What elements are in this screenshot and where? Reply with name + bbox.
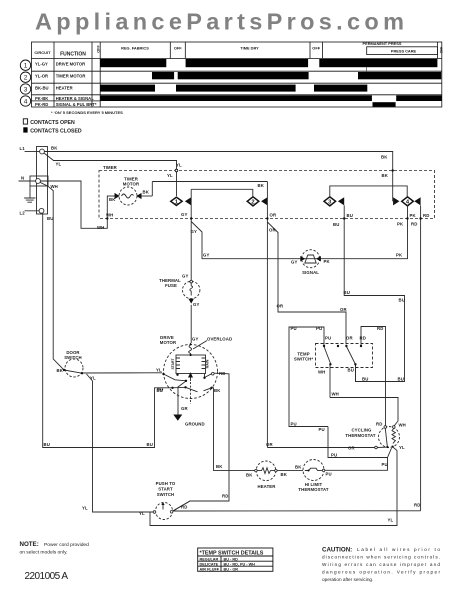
wire WH from N xyxy=(40,181,107,228)
svg-text:L1: L1 xyxy=(20,146,26,151)
circled row numbers xyxy=(20,60,30,106)
svg-text:REGULAR: REGULAR xyxy=(200,557,219,561)
contacts closed symbol xyxy=(23,127,27,132)
svg-text:3: 3 xyxy=(24,86,28,93)
wire GY branch to signal xyxy=(191,222,316,259)
wire YL down to cam1 xyxy=(176,161,178,196)
svg-text:PU: PU xyxy=(382,462,388,467)
svg-text:YL-GY: YL-GY xyxy=(35,61,48,66)
svg-text:BK: BK xyxy=(51,146,58,151)
column: function divider xyxy=(91,42,93,107)
temp switch contact dots xyxy=(323,345,362,366)
column: reg fabrics right xyxy=(169,42,171,59)
svg-text:GROUND: GROUND xyxy=(185,422,205,427)
svg-text:4: 4 xyxy=(24,98,28,105)
timing bars row4b signal&pul brt xyxy=(373,102,396,107)
motor contact dots xyxy=(162,373,212,389)
svg-text:THERMOSTAT: THERMOSTAT xyxy=(345,433,375,438)
wire YL horizontal to timer xyxy=(54,160,177,162)
svg-text:BK: BK xyxy=(143,190,150,195)
svg-text:FUSE: FUSE xyxy=(165,283,177,288)
svg-text:PK: PK xyxy=(396,253,403,258)
svg-text:PU: PU xyxy=(316,326,322,331)
svg-text:BK: BK xyxy=(216,464,223,469)
svg-text:OR: OR xyxy=(270,213,277,218)
OR input xyxy=(267,447,374,449)
svg-text:RD: RD xyxy=(423,213,429,218)
svg-text:YL: YL xyxy=(156,368,162,373)
svg-text:PU: PU xyxy=(325,336,331,341)
svg-text:PU: PU xyxy=(319,427,325,432)
winding box xyxy=(176,355,206,374)
svg-text:DRIVE MOTOR: DRIVE MOTOR xyxy=(56,61,85,66)
main-RD blade xyxy=(205,374,212,378)
svg-text:BU - RD, PU - WH: BU - RD, PU - WH xyxy=(224,562,256,566)
winding hatches right xyxy=(202,358,206,369)
L1 lead wire xyxy=(25,151,40,153)
resistor zigzag xyxy=(392,428,395,443)
svg-text:2: 2 xyxy=(251,200,254,206)
svg-text:CIRCUIT: CIRCUIT xyxy=(34,50,51,55)
svg-text:OR: OR xyxy=(348,446,355,451)
wire OR branch to temp switch xyxy=(267,222,346,344)
ground symbol motor xyxy=(173,415,182,421)
centrifugal mech dashed link xyxy=(190,382,192,404)
svg-text:PK: PK xyxy=(397,222,404,227)
svg-text:BU - RD: BU - RD xyxy=(224,557,239,561)
svg-text:BU: BU xyxy=(347,213,353,218)
PU lead path xyxy=(289,327,328,427)
wire PK from cam4 to signal xyxy=(316,205,408,258)
svg-text:TIMER MOTOR: TIMER MOTOR xyxy=(56,74,86,79)
column: off2 right xyxy=(184,42,186,59)
press care divider artifact into rows xyxy=(366,59,368,78)
RD lead from temp switch xyxy=(361,327,386,426)
svg-text:BK: BK xyxy=(109,197,116,202)
wire BU from L2 down and to motor xyxy=(43,214,173,448)
timer motor xyxy=(107,182,267,206)
svg-text:GR: GR xyxy=(181,406,188,411)
svg-text:TIMER: TIMER xyxy=(103,165,118,170)
svg-text:YL: YL xyxy=(388,518,394,523)
svg-text:GY: GY xyxy=(191,229,197,234)
svg-text:YL: YL xyxy=(399,445,405,450)
svg-text:dangerous operation. Verify pr: dangerous operation. Verify proper xyxy=(322,570,440,575)
svg-text:BU: BU xyxy=(344,290,350,295)
svg-text:YL: YL xyxy=(139,511,145,516)
BU lower contact line xyxy=(173,386,186,389)
svg-text:CONTACTS CLOSED: CONTACTS CLOSED xyxy=(30,128,82,134)
timing bars row1 drive motor xyxy=(100,59,441,107)
cam switch 1 xyxy=(171,197,192,205)
timer motor lead arrows xyxy=(115,193,120,199)
header texts xyxy=(34,41,443,58)
BK out wire xyxy=(212,388,256,471)
svg-text:SWITCH: SWITCH xyxy=(64,355,82,360)
YL input wire xyxy=(150,372,162,374)
ground at N terminal xyxy=(25,186,35,202)
wire BK from L1 to cam4 xyxy=(44,151,392,153)
svg-text:MAIN: MAIN xyxy=(205,359,209,368)
svg-text:PUSH TO: PUSH TO xyxy=(156,481,176,486)
svg-text:BK: BK xyxy=(57,368,64,373)
svg-text:BK: BK xyxy=(258,183,265,188)
svg-text:GY: GY xyxy=(291,260,297,265)
svg-text:BU: BU xyxy=(147,442,153,447)
svg-text:GY: GY xyxy=(193,302,199,307)
wire bracket cam3-cam4 xyxy=(330,186,407,197)
svg-text:BU: BU xyxy=(333,222,339,227)
svg-text:YL-OR: YL-OR xyxy=(35,74,48,79)
svg-text:FUNCTION: FUNCTION xyxy=(60,52,86,58)
RD wire to cam4 xyxy=(172,510,421,512)
svg-text:PU: PU xyxy=(291,326,297,331)
svg-text:RD: RD xyxy=(414,503,420,508)
svg-text:WH: WH xyxy=(106,213,113,218)
wire BU from cam3 to temp switch xyxy=(344,205,404,381)
winding hatches left xyxy=(176,358,180,369)
svg-text:Wiring errors can cause improp: Wiring errors can cause improper and xyxy=(322,562,440,567)
svg-text:RD: RD xyxy=(219,371,225,376)
svg-text:operation after servicing.: operation after servicing. xyxy=(322,577,373,582)
svg-text:YL: YL xyxy=(90,376,96,381)
svg-text:1: 1 xyxy=(24,63,28,70)
svg-text:OR: OR xyxy=(269,228,276,233)
svg-text:BK: BK xyxy=(246,473,253,478)
terminal block rectangle xyxy=(37,147,48,215)
svg-text:L2: L2 xyxy=(20,211,26,216)
wire BK down to door switch xyxy=(41,183,65,371)
wire BK down to cam4 xyxy=(392,152,394,202)
svg-text:DELICATE: DELICATE xyxy=(200,562,219,566)
wire GY net cam1 to cam2 top xyxy=(191,189,253,197)
svg-text:BU - OR: BU - OR xyxy=(224,567,239,571)
svg-text:PK: PK xyxy=(324,259,331,264)
svg-text:BU: BU xyxy=(398,377,404,382)
svg-text:BU: BU xyxy=(44,442,50,447)
cam switch 3 xyxy=(324,197,344,206)
svg-text:BK: BK xyxy=(382,173,389,178)
svg-text:HEATER: HEATER xyxy=(258,484,277,489)
wire GY down from cam1 xyxy=(190,189,192,280)
wire RD from cam4 down xyxy=(420,205,422,510)
svg-text:RD: RD xyxy=(181,505,187,510)
svg-text:BK: BK xyxy=(381,155,388,160)
svg-text:CONTACTS OPEN: CONTACTS OPEN xyxy=(30,120,75,126)
svg-text:PU: PU xyxy=(291,422,297,427)
header bottom line xyxy=(32,58,442,60)
actuator arrow xyxy=(188,372,193,377)
contacts open symbol xyxy=(23,119,27,124)
svg-text:CAUTION:: CAUTION: xyxy=(322,547,352,554)
svg-text:BU: BU xyxy=(348,368,354,373)
svg-text:2: 2 xyxy=(24,75,28,82)
svg-text:2201005 A: 2201005 A xyxy=(25,571,69,582)
svg-text:OFF: OFF xyxy=(174,46,182,51)
blades xyxy=(324,347,331,364)
svg-text:TIME DRY: TIME DRY xyxy=(240,46,259,51)
svg-text:GY: GY xyxy=(203,253,209,258)
svg-text:PK-BK: PK-BK xyxy=(35,96,48,101)
svg-text:WH: WH xyxy=(318,370,325,375)
GR wire to ground xyxy=(178,381,186,415)
svg-text:BK: BK xyxy=(281,472,288,477)
overload element xyxy=(189,343,192,355)
timing bars row2 timer motor xyxy=(152,72,174,79)
cam switch 4 xyxy=(393,197,421,206)
svg-text:MOTOR: MOTOR xyxy=(123,182,140,187)
YL output xyxy=(393,447,397,451)
svg-text:MOTOR: MOTOR xyxy=(160,340,177,345)
terminal circles xyxy=(36,149,45,213)
svg-text:OR: OR xyxy=(266,442,273,447)
cam switch 2 xyxy=(247,197,267,206)
WH lead down xyxy=(329,365,331,398)
N lead wire xyxy=(19,180,36,182)
timing bars row3 heater xyxy=(100,85,155,92)
svg-text:OR: OR xyxy=(277,304,284,309)
svg-text:PU: PU xyxy=(326,472,332,477)
svg-text:THERMOSTAT: THERMOSTAT xyxy=(298,487,328,492)
svg-text:PK: PK xyxy=(410,213,417,218)
WH lead xyxy=(330,398,398,426)
start winding lead xyxy=(177,374,179,375)
svg-text:BU: BU xyxy=(47,216,53,221)
column: off1 divider xyxy=(99,42,101,107)
svg-text:SIGNAL & PUL BRT*: SIGNAL & PUL BRT* xyxy=(56,102,97,107)
svg-text:START: START xyxy=(171,358,175,370)
svg-text:REG. FABRICS: REG. FABRICS xyxy=(121,46,149,51)
L2 lead wire xyxy=(25,210,39,212)
svg-text:YL: YL xyxy=(167,173,173,178)
column: off3 right xyxy=(321,42,323,59)
svg-text:AIR FLUFF: AIR FLUFF xyxy=(200,567,220,571)
N terminal wide box xyxy=(30,176,48,186)
svg-text:OVERLOAD: OVERLOAD xyxy=(207,337,232,342)
svg-text:OFF: OFF xyxy=(312,46,320,51)
RD wire out xyxy=(172,373,229,511)
svg-text:*TEMP SWITCH DETAILS: *TEMP SWITCH DETAILS xyxy=(200,551,264,557)
svg-text:GY: GY xyxy=(182,274,188,279)
svg-text:disconnection when servicing c: disconnection when servicing controls. xyxy=(322,555,440,560)
svg-text:START: START xyxy=(158,487,173,492)
timer dashed box xyxy=(99,171,435,219)
svg-text:CYCLING: CYCLING xyxy=(351,427,372,432)
svg-text:BU: BU xyxy=(157,387,163,392)
table outer frame xyxy=(32,42,442,107)
svg-text:PK-RD: PK-RD xyxy=(35,102,48,107)
svg-text:RD: RD xyxy=(377,326,383,331)
svg-text:PRESS CARE: PRESS CARE xyxy=(391,49,417,54)
svg-text:GY: GY xyxy=(192,337,198,342)
svg-text:WH: WH xyxy=(97,225,104,230)
svg-text:RD: RD xyxy=(376,422,382,427)
circuit + function labels xyxy=(35,61,97,107)
press care sub-box xyxy=(367,47,438,55)
timing bars row4 heater&signal xyxy=(100,95,372,101)
svg-text:OFF: OFF xyxy=(439,47,443,54)
svg-text:BU: BU xyxy=(362,377,368,382)
svg-text:on select models only.: on select models only. xyxy=(20,550,68,556)
svg-text:YL: YL xyxy=(82,506,88,511)
svg-text:SWITCH*: SWITCH* xyxy=(294,357,314,362)
svg-text:NOTE:: NOTE: xyxy=(20,541,39,548)
lower blade BU-BK open xyxy=(186,387,198,392)
svg-text:WH: WH xyxy=(399,423,406,428)
svg-text:HEATER: HEATER xyxy=(56,85,73,90)
svg-text:WH: WH xyxy=(332,392,339,397)
svg-text:OFF: OFF xyxy=(97,45,101,53)
svg-text:SIGNAL: SIGNAL xyxy=(302,270,319,275)
YL loop to cycling thermostat xyxy=(150,451,397,526)
svg-text:OR: OR xyxy=(340,307,347,312)
BU lead down xyxy=(355,365,357,382)
main winding lead xyxy=(204,374,206,378)
column: time dry right xyxy=(309,42,311,59)
svg-text:RD: RD xyxy=(411,222,417,227)
svg-text:GY: GY xyxy=(181,212,187,217)
svg-text:YL: YL xyxy=(176,163,182,168)
svg-text:Power cord provided: Power cord provided xyxy=(44,542,89,548)
svg-text:YL: YL xyxy=(56,162,62,167)
svg-text:N: N xyxy=(21,176,24,181)
centrifugal switch blade upper xyxy=(164,374,187,381)
svg-text:SWITCH: SWITCH xyxy=(157,492,175,497)
PU input path xyxy=(328,427,392,458)
svg-text:BU: BU xyxy=(399,298,405,303)
svg-text:BK: BK xyxy=(214,388,221,393)
svg-text:RD: RD xyxy=(222,494,228,499)
row 4 sub divider xyxy=(32,100,101,102)
wire cam2 vertical OR xyxy=(266,182,268,448)
svg-text:* ‘ON’ 5 SECONDS EVERY 5 MINUT: * ‘ON’ 5 SECONDS EVERY 5 MINUTES xyxy=(51,110,123,115)
svg-text:WH: WH xyxy=(51,184,58,189)
svg-text:PERMANENT PRESS: PERMANENT PRESS xyxy=(363,41,402,46)
svg-text:BK: BK xyxy=(295,465,302,470)
svg-text:BK-BU: BK-BU xyxy=(35,85,49,90)
blade xyxy=(385,428,387,446)
svg-text:RD: RD xyxy=(360,336,366,341)
wire YL diagonal from L1 xyxy=(44,153,54,161)
svg-text:OR: OR xyxy=(346,336,353,341)
svg-text:PU: PU xyxy=(331,453,337,458)
svg-text:HEATER & SIGNAL: HEATER & SIGNAL xyxy=(56,96,95,101)
column: circuit divider xyxy=(53,42,55,107)
row divider lines xyxy=(32,70,442,72)
node dots on timer box border xyxy=(106,169,422,219)
